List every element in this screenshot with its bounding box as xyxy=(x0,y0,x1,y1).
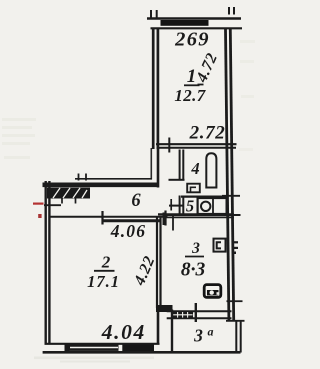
jamb tick at balcony door xyxy=(195,303,197,322)
room1 bottom wall line 1 xyxy=(156,143,237,145)
dim tick B on room2 top wall xyxy=(164,211,166,226)
toilet door jamb line xyxy=(169,205,184,207)
vent box in kitchen xyxy=(214,239,226,252)
svg-text:8·3: 8·3 xyxy=(181,260,206,281)
balcony left rail xyxy=(171,310,173,353)
window W2 (striped) in room2 bottom wall xyxy=(70,344,119,351)
wall between room2 and room3 xyxy=(157,216,161,308)
toilet fixture box xyxy=(198,198,227,214)
left outer wall xyxy=(46,181,50,345)
dim tick on left wall xyxy=(44,204,61,206)
svg-text:2: 2 xyxy=(101,253,111,272)
balcony right rail (double) xyxy=(236,321,240,353)
svg-text:6: 6 xyxy=(131,191,141,211)
dim tick on room1 bottom wall xyxy=(168,138,170,153)
top outer wall upper line xyxy=(147,17,241,19)
closet ticks below xyxy=(62,199,76,204)
room2 bottom wall top line xyxy=(45,343,160,345)
kitchen door leaf xyxy=(172,215,174,231)
small dot right of wall xyxy=(234,252,237,255)
kitchen-balcony wall lower line xyxy=(167,317,232,319)
vent dashes right of wall xyxy=(233,242,238,248)
svg-text:3: 3 xyxy=(193,326,203,346)
svg-text:5: 5 xyxy=(186,197,194,216)
svg-text:2.72: 2.72 xyxy=(189,123,226,144)
toilet fixture circle xyxy=(201,202,210,211)
tick for 4.72 dim xyxy=(198,84,204,86)
balcony door dark panel in room2 bottom wall xyxy=(122,345,154,352)
right outer wall (slightly skewed) xyxy=(226,29,234,320)
toilet wall lower segment xyxy=(180,196,184,216)
faint bleedthrough marks left margin xyxy=(2,118,36,159)
kitchen top wall line 1 xyxy=(158,213,234,215)
svg-text:17.1: 17.1 xyxy=(87,272,120,291)
room2 top wall thin line xyxy=(50,216,168,218)
sink box in bathroom xyxy=(187,184,200,193)
wall-break tick pair top-left xyxy=(151,10,157,18)
room 1 left wall xyxy=(153,29,158,149)
svg-text:269: 269 xyxy=(174,28,210,50)
bathroom left wall upper segment xyxy=(180,150,184,181)
toilet fixture divider xyxy=(212,198,214,214)
room1 bottom wall line 2 xyxy=(158,147,236,149)
kitchen top wall line 2 xyxy=(166,216,234,218)
corridor top wall thick line xyxy=(43,183,160,188)
room2 bottom wall lower line / balcony floor line xyxy=(43,351,241,354)
dim tick A on room2 top wall xyxy=(101,211,103,225)
bathroom door jamb xyxy=(169,179,185,181)
wall-break tick pair top-right xyxy=(229,7,234,15)
hall east dark wall line xyxy=(157,147,160,188)
window W2 left cap xyxy=(65,344,70,352)
red annotation stroke xyxy=(33,203,44,205)
svg-text:4: 4 xyxy=(190,159,199,178)
corridor top wall thin upper line xyxy=(75,178,152,180)
window W1 in top wall xyxy=(161,20,209,26)
room 1 number underline xyxy=(184,84,200,86)
built-in closet (hatched) xyxy=(47,188,90,199)
room 3 number underline xyxy=(185,256,204,258)
tick pair above corridor wall xyxy=(79,174,87,181)
tick across right wall at balcony top xyxy=(226,320,245,322)
faint bleedthrough smudge below bottom wall xyxy=(34,357,154,363)
kitchen door jamb tick xyxy=(163,213,165,226)
room 2 number underline xyxy=(94,270,115,272)
toilet top line overhang through right wall xyxy=(222,195,240,197)
bottom wall of toilet/corridor row xyxy=(163,214,241,216)
hall west thin wall line xyxy=(150,148,152,180)
top outer wall lower line xyxy=(151,27,243,29)
bathtub xyxy=(206,153,216,187)
svg-text:4.06: 4.06 xyxy=(110,221,146,241)
wall between bath 4 and toilet 5 xyxy=(181,196,227,198)
red annotation dot xyxy=(38,214,41,218)
gas stove in kitchen xyxy=(204,285,221,298)
svg-text:4.04: 4.04 xyxy=(101,320,146,344)
svg-text:3: 3 xyxy=(191,240,200,257)
window W3 (striped) to balcony xyxy=(173,312,194,318)
kitchen corner wall stub xyxy=(156,305,173,312)
svg-text:a: a xyxy=(208,325,214,339)
svg-text:12.7: 12.7 xyxy=(174,86,206,105)
toilet door tick xyxy=(170,199,172,211)
room2 right wall lower segment xyxy=(157,308,160,344)
tick across right wall above balcony xyxy=(227,300,243,302)
room2 top wall thick segment xyxy=(103,219,161,222)
kitchen-balcony wall upper line xyxy=(167,310,232,312)
faint bleedthrough marks right margin xyxy=(239,40,255,151)
